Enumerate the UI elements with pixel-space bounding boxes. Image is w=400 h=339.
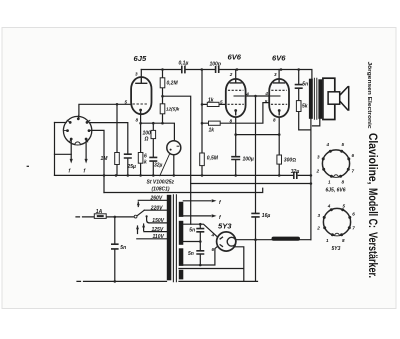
junction 150V hook bbox=[146, 215, 148, 217]
capacitor 0,1u plates bbox=[111, 66, 303, 254]
capacitor 5n mains plates bbox=[111, 244, 119, 249]
junction ground bus 25u bbox=[127, 174, 130, 177]
svg-text:2: 2 bbox=[316, 168, 320, 173]
resistor 0,2M bbox=[94, 78, 301, 219]
loudspeaker frame bbox=[323, 78, 335, 119]
wire: mains 5n cap column bbox=[114, 217, 116, 282]
svg-text:1: 1 bbox=[326, 238, 329, 243]
wire: cathode node line y123 bbox=[141, 123, 175, 141]
capacitor 32u series plates on ground bus bbox=[294, 172, 297, 179]
junction screen node bbox=[254, 95, 257, 98]
svg-text:300Ω: 300Ω bbox=[284, 158, 296, 164]
svg-text:Jörgensen Electronic: Jörgensen Electronic bbox=[366, 62, 372, 129]
junction 1k no.2 left bbox=[201, 122, 204, 125]
capacitor 25u plates bbox=[124, 154, 132, 158]
socket pins bbox=[66, 117, 90, 140]
svg-text:4: 4 bbox=[264, 91, 268, 96]
svg-text:3: 3 bbox=[274, 72, 277, 77]
5Y3 cathode ring bbox=[227, 237, 236, 246]
output transformer secondary winding bbox=[318, 79, 322, 119]
5Y3 plate electrodes bbox=[220, 237, 223, 247]
fuse inner bar bbox=[97, 215, 104, 217]
svg-text:2: 2 bbox=[229, 72, 233, 77]
f1 arrow bbox=[212, 199, 217, 202]
heater winding wire f1 bbox=[183, 200, 211, 202]
power transformer secondary seg4 bbox=[179, 270, 184, 280]
leader line to stabilizer label bbox=[160, 154, 170, 176]
svg-text:5k: 5k bbox=[302, 103, 308, 109]
junction 100ohm top bbox=[152, 122, 155, 125]
svg-text:125V: 125V bbox=[152, 227, 164, 233]
svg-text:260V: 260V bbox=[150, 196, 163, 202]
svg-text:1A: 1A bbox=[96, 209, 103, 215]
socket diagram 6J5 6V6 circle bbox=[322, 150, 349, 177]
wire: second 6V6 plate lead bbox=[278, 70, 280, 80]
power transformer secondary seg2 bbox=[179, 221, 184, 245]
tube 6V6 no.2 envelope bbox=[269, 79, 289, 117]
tap arrow 3 head bbox=[142, 224, 145, 228]
svg-text:Modell C:: Modell C: bbox=[366, 188, 380, 228]
f2 arrow bbox=[212, 214, 217, 217]
wire: first 6V6 plate lead bbox=[235, 70, 237, 80]
wire: socket right stub to 25u column bbox=[90, 123, 128, 154]
svg-text:8: 8 bbox=[230, 118, 233, 123]
resistor 0,5M bbox=[200, 153, 205, 166]
svg-text:8: 8 bbox=[273, 117, 276, 122]
capacitor 32u plates below 100ohm bbox=[149, 157, 157, 161]
junction 12(5)k bottom bbox=[161, 122, 164, 125]
junction cathode link no.1 bbox=[234, 133, 237, 136]
socket diagram 5Y3 circle bbox=[323, 208, 350, 235]
svg-text:6V6: 6V6 bbox=[272, 54, 286, 63]
junction mains 5n top bbox=[114, 216, 117, 219]
capacitor 5n HV2 plates bbox=[196, 251, 204, 254]
output transformer core bbox=[314, 78, 316, 120]
wire: B+ line B bbox=[191, 183, 311, 185]
junction on top bus at 6V6 no.2 bbox=[280, 68, 283, 71]
svg-text:4: 4 bbox=[327, 203, 331, 208]
wire: 0.2M column from bus down to 12(5)k and node bbox=[162, 70, 164, 124]
resistor 5k bbox=[296, 101, 301, 112]
capacitor 100u plates bbox=[231, 157, 240, 160]
junction HV cap column bottom bbox=[199, 264, 202, 267]
capacitor 100p plates bbox=[216, 66, 219, 73]
svg-text:150V: 150V bbox=[152, 218, 164, 224]
wire: node line from 0.2M bottom right then down to B+ line B bbox=[163, 96, 191, 224]
svg-text:6J5: 6J5 bbox=[134, 54, 147, 63]
svg-text:Clavioline,: Clavioline, bbox=[366, 133, 380, 185]
svg-text:12(5)k: 12(5)k bbox=[166, 107, 180, 112]
junction HV center tap bbox=[199, 240, 202, 243]
svg-text:5Y3: 5Y3 bbox=[218, 222, 232, 231]
capacitor 5n HV1 plates bbox=[196, 229, 204, 232]
wire: top coupling bus from 6J5 plate to output transformer bbox=[141, 70, 312, 79]
wire: first 6V6 cathode column 100u bbox=[235, 116, 237, 176]
wire: 6J5 grid line bbox=[117, 103, 132, 105]
socket pin ticks bbox=[64, 115, 92, 143]
heater arrow left f bbox=[70, 159, 73, 164]
loudspeaker horn bbox=[340, 86, 349, 111]
junction ground bus stabilizer bbox=[173, 174, 176, 177]
wire: 6k cathode resistor leads bbox=[140, 123, 142, 175]
6J5 internal electrodes bbox=[133, 78, 149, 115]
junction B+ vertical at bus A bbox=[310, 174, 313, 177]
selector switch arm bbox=[137, 210, 144, 216]
junction 0.2M bottom node bbox=[161, 95, 164, 98]
voltage tap 110V bbox=[137, 238, 167, 240]
power transformer secondary seg1 bbox=[179, 202, 184, 217]
svg-text:5Y3: 5Y3 bbox=[332, 246, 341, 252]
svg-text:6: 6 bbox=[352, 212, 355, 217]
svg-text:7: 7 bbox=[352, 226, 355, 231]
svg-text:5: 5 bbox=[342, 142, 345, 147]
junction mains 5n bottom bbox=[114, 280, 117, 283]
svg-text:1k: 1k bbox=[208, 98, 214, 104]
svg-text:St V100/25z: St V100/25z bbox=[147, 180, 175, 186]
heater winding wire f2 bbox=[183, 215, 211, 217]
socket diagram 2 pins bbox=[323, 208, 352, 236]
margin text Clavioline Modell C Verstaerker bbox=[366, 133, 380, 278]
svg-text:2: 2 bbox=[316, 226, 320, 231]
voltage tap 220V bbox=[144, 209, 167, 211]
svg-text:4: 4 bbox=[326, 142, 330, 147]
resistor 1k no.1 bbox=[207, 102, 219, 106]
svg-text:5n: 5n bbox=[120, 245, 126, 251]
svg-text:Verstärker.: Verstärker. bbox=[366, 232, 380, 278]
svg-text:110V: 110V bbox=[153, 234, 165, 240]
wire: 6J5 plate lead bbox=[140, 70, 142, 78]
filter choke bbox=[272, 237, 301, 241]
seg4 lower return wire bbox=[179, 280, 258, 282]
wire: left vertical to ground bus bbox=[54, 123, 56, 176]
HV plate1 wire to 5Y3 bbox=[183, 224, 217, 236]
junction on top bus at 5n column bbox=[297, 68, 300, 71]
junction ground bus 1M bbox=[115, 174, 118, 177]
wire: socket left stub bbox=[55, 122, 67, 124]
stabilizer tube StV100/25z bbox=[167, 141, 181, 155]
HV center tap wire bbox=[183, 241, 200, 243]
svg-text:1: 1 bbox=[328, 179, 331, 184]
tube 6V6 no.1 envelope bbox=[226, 79, 246, 117]
tube 6J5 envelope bbox=[131, 77, 289, 117]
wire: grid-leak column 1M bbox=[116, 104, 118, 175]
wire: 25u bottom lead bbox=[127, 158, 129, 175]
junction cathode node 6J5 bbox=[139, 122, 142, 125]
fuse 1A bbox=[94, 214, 106, 219]
wire: mains bottom line bbox=[77, 280, 167, 282]
wire: heater drop arrows from socket bbox=[71, 139, 86, 159]
6V6 no.2 internal electrodes bbox=[270, 79, 288, 116]
svg-text:32µ: 32µ bbox=[291, 169, 300, 175]
junction ground bus 100u bbox=[234, 174, 237, 177]
svg-text:5: 5 bbox=[125, 100, 128, 105]
wire: 1k no.1 to first 6V6 grid bbox=[202, 103, 226, 105]
resistor 12(5)k bbox=[160, 104, 165, 114]
svg-text:0,2M: 0,2M bbox=[167, 81, 179, 87]
junction grid node 6J5 bbox=[116, 103, 119, 106]
junction ground bus socket wire bbox=[103, 174, 106, 177]
svg-text:6: 6 bbox=[212, 247, 215, 252]
capacitor 16u plates bbox=[251, 213, 259, 217]
tap marker arrow 1 bbox=[137, 202, 139, 207]
svg-text:32µ: 32µ bbox=[154, 163, 163, 169]
wire: mains line with fuse bbox=[76, 216, 135, 218]
svg-text:1k: 1k bbox=[209, 128, 215, 134]
power transformer secondary seg3 bbox=[179, 248, 184, 266]
svg-text:6V6: 6V6 bbox=[228, 53, 242, 62]
svg-text:4: 4 bbox=[211, 232, 215, 237]
svg-text:5: 5 bbox=[220, 99, 223, 104]
svg-text:8: 8 bbox=[342, 179, 345, 184]
svg-text:8: 8 bbox=[136, 118, 139, 123]
svg-text:7: 7 bbox=[352, 168, 355, 173]
svg-text:Ω: Ω bbox=[144, 137, 149, 143]
arrowheads bbox=[70, 159, 217, 229]
wire: OT secondary bottom hook bbox=[313, 119, 320, 126]
svg-text:8: 8 bbox=[342, 238, 345, 243]
wire: socket right pin down to line2 bbox=[91, 130, 104, 192]
wire: second 6V6 cathode column 300ohm bbox=[278, 116, 280, 176]
heater arrow right f bbox=[85, 159, 88, 164]
junction HV cap column top bbox=[199, 223, 202, 226]
wire: phase splitter column 0.5M bbox=[201, 70, 203, 176]
junction B+ vertical at line B bbox=[310, 182, 313, 185]
voltage tap 125V bbox=[144, 231, 167, 233]
socket diagram 2 keyway bbox=[335, 233, 339, 235]
svg-text:3: 3 bbox=[317, 155, 320, 160]
svg-text:25µ: 25µ bbox=[127, 164, 137, 170]
tap marker arrow 2 bbox=[137, 226, 139, 234]
wire: stabilizer bottom lead bbox=[173, 155, 175, 176]
svg-text:100µ: 100µ bbox=[243, 157, 254, 163]
svg-text:3: 3 bbox=[135, 72, 138, 77]
5Y3 filament loop bbox=[179, 247, 244, 282]
svg-text:3: 3 bbox=[318, 213, 321, 218]
svg-text:220V: 220V bbox=[150, 205, 163, 211]
5n cap1 column bbox=[199, 224, 201, 265]
resistor 100ohm bbox=[151, 130, 156, 138]
voltage tap 260V bbox=[138, 199, 167, 201]
wire: ground bus line A bbox=[55, 174, 311, 176]
loudspeaker magnet bbox=[328, 92, 340, 104]
junction 1k no.1 left bbox=[201, 103, 204, 106]
wire: input socket top pin to grid junction bbox=[79, 104, 117, 117]
resistor 6k bbox=[138, 153, 143, 164]
input socket circle bbox=[63, 115, 91, 145]
svg-text:0,1µ: 0,1µ bbox=[179, 61, 189, 67]
capacitor 5n feedback plates bbox=[295, 85, 303, 89]
svg-text:4: 4 bbox=[245, 91, 249, 96]
junction cathode link no.2 bbox=[278, 133, 281, 136]
svg-text:0,5M: 0,5M bbox=[207, 156, 219, 162]
wire: 5n 5k feedback column bbox=[299, 70, 311, 130]
wire: 6J5 cathode down to node line bbox=[140, 114, 142, 123]
6V6 no.1 internal electrodes bbox=[228, 79, 245, 116]
junction on top bus at 0.2M bbox=[161, 68, 164, 71]
wire: screen node down through 16u to seg4 return bbox=[255, 96, 257, 281]
HV plate2 wire to 5Y3 bbox=[183, 246, 217, 265]
junction on top bus at splitter column bbox=[201, 68, 204, 71]
junction ground bus 0.5M bbox=[201, 174, 204, 177]
wire: B+ vertical at 310.9 bbox=[310, 119, 312, 240]
tap arrow 1 head bbox=[137, 202, 140, 206]
svg-text:100p: 100p bbox=[210, 62, 221, 68]
junction on top bus at 6V6 no.1 bbox=[236, 68, 239, 71]
selector switch pivot bbox=[134, 215, 137, 218]
output transformer primary winding bbox=[309, 79, 313, 119]
voltage tap 150V with hook bbox=[147, 217, 167, 223]
wire: line C lower distribution bbox=[104, 188, 263, 192]
tap arrow 2 head bbox=[136, 226, 139, 230]
svg-text:5n: 5n bbox=[189, 227, 195, 233]
socket diagram 1 pins bbox=[322, 150, 351, 178]
svg-text:5: 5 bbox=[265, 99, 268, 104]
svg-text:k: k bbox=[144, 160, 147, 166]
svg-text:6: 6 bbox=[352, 153, 355, 158]
wire: 100ohm column and 32u bbox=[152, 123, 154, 175]
wire: socket heater pin L to left vertical bbox=[55, 139, 72, 154]
resistor 1k no.2 bbox=[209, 121, 221, 125]
wire: screen wire between 6V6 pins 4 bbox=[245, 95, 270, 97]
svg-text:1M: 1M bbox=[101, 156, 109, 162]
resistor 1M bbox=[115, 153, 120, 165]
resistor 300ohm bbox=[277, 155, 282, 164]
scan speck bbox=[27, 165, 28, 167]
junction ground bus 300ohm bbox=[278, 174, 281, 177]
junction ground bus 6k bbox=[139, 174, 142, 177]
socket keyway notch bbox=[75, 142, 80, 145]
wire: 1k no.2 wire to second 6V6 grid bbox=[202, 103, 270, 124]
power transformer core bbox=[173, 194, 176, 282]
junction ground bus 32u bbox=[152, 174, 155, 177]
svg-text:5: 5 bbox=[343, 203, 346, 208]
rectifier 5Y3 envelope bbox=[217, 232, 236, 251]
power transformer primary winding bbox=[167, 195, 172, 280]
svg-text:(108C1): (108C1) bbox=[152, 187, 170, 193]
svg-text:16µ: 16µ bbox=[262, 213, 271, 219]
svg-text:5n: 5n bbox=[188, 251, 194, 257]
svg-text:6J5, 6V6: 6J5, 6V6 bbox=[326, 188, 346, 194]
svg-text:5n: 5n bbox=[302, 81, 308, 87]
rectifier output wire through choke bbox=[236, 239, 311, 241]
tap marker arrow 3 bbox=[143, 224, 145, 231]
wire: cathode link y134.6 bbox=[236, 134, 280, 136]
junction choke input 16u bbox=[254, 238, 257, 241]
socket diagram 1 keyway bbox=[334, 175, 338, 177]
